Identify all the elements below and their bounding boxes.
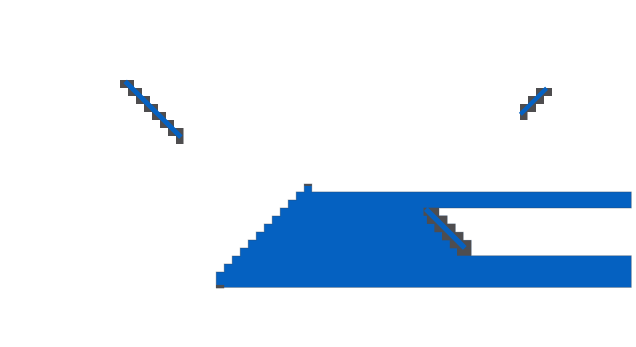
pixelated diagonal tick top-right: blue stroke xyxy=(520,88,546,114)
gray staircase band along notch in stripe xyxy=(424,208,472,256)
gray cap on mountain peak xyxy=(304,184,312,186)
blue mountain silhouette with bars and notched white stripe xyxy=(216,184,631,287)
pixelated diagonal tick top-right: gray staircase blocks xyxy=(520,88,552,120)
gray block at bottom-left corner of mountain xyxy=(216,285,224,288)
pixelated diagonal tick top-left: gray staircase blocks xyxy=(120,80,184,144)
pixelated diagonal tick top-left: blue stroke xyxy=(125,81,181,137)
blue stroke inside notch staircase xyxy=(426,209,465,248)
